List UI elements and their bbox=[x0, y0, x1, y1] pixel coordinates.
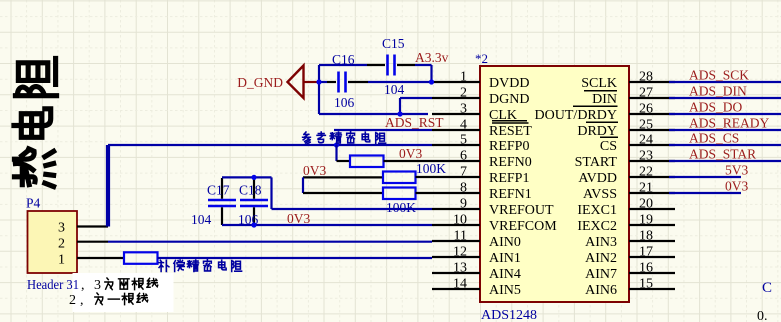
svg-text:0.: 0. bbox=[757, 309, 768, 322]
pin 6 stub wire bbox=[432, 160, 480, 162]
pin 3 stub wire bbox=[432, 113, 480, 115]
svg-text:C16: C16 bbox=[332, 52, 355, 67]
note background bbox=[73, 273, 174, 312]
capacitor C17 bbox=[208, 200, 236, 206]
svg-text:AIN2: AIN2 bbox=[585, 251, 617, 266]
svg-text:P4: P4 bbox=[26, 196, 41, 211]
svg-text:,: , bbox=[81, 278, 85, 293]
svg-text:AIN4: AIN4 bbox=[489, 267, 521, 282]
wire D_GND vertical bbox=[318, 65, 320, 114]
svg-text:DOUT/DRDY: DOUT/DRDY bbox=[535, 108, 617, 123]
wire 0V3 node vertical bbox=[302, 177, 304, 193]
title text 热电阻 (rotated) bbox=[14, 149, 53, 187]
P4 pin1 stub bbox=[77, 257, 124, 259]
junction A3.3v / pin1 bbox=[429, 79, 434, 84]
resistor 100K upper bbox=[383, 172, 416, 184]
svg-text:0V3: 0V3 bbox=[399, 146, 422, 161]
junction C18 top bbox=[251, 175, 256, 180]
label 补偿精密电阻 bbox=[159, 260, 169, 271]
svg-text:AVSS: AVSS bbox=[583, 187, 617, 202]
wire pin2 branch vertical bbox=[399, 98, 401, 114]
pin 7 stub wire bbox=[432, 176, 480, 178]
svg-text:0V3: 0V3 bbox=[287, 211, 310, 226]
resistor (compensation) bbox=[124, 252, 158, 263]
C15 left lead bbox=[367, 64, 385, 66]
wire junction to C16 bbox=[319, 81, 327, 83]
svg-text:AIN0: AIN0 bbox=[489, 235, 521, 250]
C16 left lead bbox=[327, 81, 336, 83]
resistor lead to REFN0 bbox=[384, 160, 433, 162]
svg-text:0V3: 0V3 bbox=[303, 163, 326, 178]
pin 11 stub wire bbox=[432, 240, 480, 242]
C18 top lead bbox=[253, 178, 255, 199]
pin 2 stub wire bbox=[432, 97, 480, 99]
pin 20 stub wire bbox=[629, 208, 675, 210]
resistor lead bbox=[337, 160, 351, 162]
svg-text:D_GND: D_GND bbox=[237, 75, 283, 90]
wire cap tops bbox=[222, 176, 272, 178]
pin 24 stub wire bbox=[629, 144, 675, 146]
svg-text:A3.3v: A3.3v bbox=[415, 50, 449, 65]
connector P4 body bbox=[28, 211, 78, 273]
C17 bottom lead bbox=[221, 207, 223, 225]
svg-text:RESET: RESET bbox=[489, 124, 532, 139]
capacitor C18 bbox=[240, 200, 268, 206]
svg-text:IEXC1: IEXC1 bbox=[577, 203, 617, 218]
wire net 5V3 bbox=[669, 176, 741, 178]
power port D_GND (triangle) bbox=[288, 66, 304, 99]
overline DRDY of DOUT/DRDY bbox=[573, 105, 618, 107]
wire down to VREFOUT bbox=[270, 177, 272, 209]
resistor (reference) bbox=[350, 156, 384, 168]
svg-text:C17: C17 bbox=[207, 183, 230, 198]
pin 10 stub wire bbox=[432, 224, 480, 226]
wire net ADS_SCK bbox=[669, 81, 781, 83]
C18 bottom lead bbox=[253, 207, 255, 225]
svg-text:,: , bbox=[80, 293, 84, 308]
svg-text:1: 1 bbox=[58, 253, 65, 268]
pin 9 stub wire bbox=[432, 208, 480, 210]
svg-text:Header 31: Header 31 bbox=[27, 277, 79, 292]
svg-text:C18: C18 bbox=[239, 183, 262, 198]
P4 pin3 stub bbox=[77, 225, 108, 227]
pin 5 stub wire bbox=[432, 144, 480, 146]
svg-text:REFP1: REFP1 bbox=[489, 171, 529, 186]
label 参考精密电阻 bbox=[303, 132, 311, 144]
pin 17 stub wire bbox=[629, 256, 675, 258]
svg-text:AVDD: AVDD bbox=[578, 171, 617, 186]
overline CS bbox=[600, 136, 618, 138]
svg-text:REFN1: REFN1 bbox=[489, 187, 532, 202]
svg-text:START: START bbox=[575, 155, 618, 170]
wire C16 to A3.3v junction bbox=[368, 81, 432, 83]
wire REFN1 left bbox=[303, 192, 383, 194]
svg-text:2: 2 bbox=[58, 237, 65, 252]
svg-text:SCLK: SCLK bbox=[581, 76, 617, 91]
pin 26 stub wire bbox=[629, 113, 675, 115]
wire D_GND to pin3 (CLK) bbox=[319, 113, 428, 115]
junction C18 bottom bbox=[251, 222, 256, 227]
pin 22 stub wire bbox=[629, 176, 675, 178]
svg-text:AIN7: AIN7 bbox=[585, 267, 617, 282]
P4 pin2 stub bbox=[77, 241, 108, 243]
svg-text:CS: CS bbox=[600, 139, 617, 154]
svg-text:ADS_RST: ADS_RST bbox=[385, 115, 444, 130]
pin 25 stub wire bbox=[629, 129, 675, 131]
svg-text:DIN: DIN bbox=[592, 92, 617, 107]
wire ADS_RST bbox=[334, 129, 432, 131]
junction D_GND bbox=[316, 79, 321, 84]
pin 19 stub wire bbox=[629, 224, 675, 226]
wire C15 to corner bbox=[415, 64, 432, 66]
wire REFP0 down to R bbox=[335, 145, 337, 161]
resistor lead bbox=[416, 192, 433, 194]
resistor lead bbox=[416, 176, 433, 178]
C15 right lead bbox=[397, 64, 415, 66]
svg-text:REFP0: REFP0 bbox=[489, 139, 529, 154]
svg-text:ADS_READY: ADS_READY bbox=[689, 116, 770, 131]
svg-text:100K: 100K bbox=[416, 161, 446, 176]
svg-text:VREFCOM: VREFCOM bbox=[489, 219, 557, 234]
wire D_GND to junction bbox=[304, 81, 320, 83]
pin 27 stub wire bbox=[629, 97, 675, 99]
overline RESET bbox=[492, 122, 529, 124]
wire pin2 branch bbox=[400, 97, 432, 99]
overline DIN bbox=[584, 90, 617, 92]
svg-text:104: 104 bbox=[384, 82, 405, 97]
pin 16 stub wire bbox=[629, 272, 675, 274]
wire P4 pin2 to AIN0 bbox=[108, 241, 432, 243]
pin 14 stub wire bbox=[432, 288, 480, 290]
junction pin2/pin3 net bbox=[397, 111, 402, 116]
underline CLK bbox=[492, 120, 527, 122]
pin 13 stub wire bbox=[432, 272, 480, 274]
svg-text:IEXC2: IEXC2 bbox=[577, 219, 617, 234]
wire corner down to pin1 bbox=[430, 65, 432, 82]
svg-text:0V3: 0V3 bbox=[725, 179, 748, 194]
wire net ADS_CS bbox=[669, 144, 781, 146]
wire P4 pin3 to REFP0 (thick) bbox=[106, 145, 110, 227]
overline DRDY bbox=[586, 121, 618, 123]
wire net ADS_STAR bbox=[669, 160, 781, 162]
capacitor C16 bbox=[339, 72, 346, 93]
pin 1 stub wire bbox=[432, 81, 480, 83]
pin 12 stub wire bbox=[432, 256, 480, 258]
svg-text:DGND: DGND bbox=[489, 92, 529, 107]
svg-text:VREFOUT: VREFOUT bbox=[489, 203, 554, 218]
wire net ADS_DO bbox=[669, 113, 781, 115]
svg-text:ADS1248: ADS1248 bbox=[481, 308, 537, 322]
svg-text:AIN5: AIN5 bbox=[489, 283, 521, 298]
junction REFP0 bbox=[334, 142, 339, 147]
svg-text:ADS_DO: ADS_DO bbox=[689, 100, 743, 115]
svg-text:106: 106 bbox=[334, 95, 355, 110]
svg-text:104: 104 bbox=[191, 212, 212, 227]
wire top to C15 bbox=[319, 64, 367, 66]
svg-text:ADS_CS: ADS_CS bbox=[689, 131, 739, 146]
wire VREFCOM 0V3 bbox=[222, 224, 432, 226]
pin 28 stub wire bbox=[629, 81, 675, 83]
capacitor C15 bbox=[388, 55, 395, 76]
wire net ADS_DIN bbox=[669, 97, 781, 99]
wire REFP1 left bbox=[303, 176, 383, 178]
svg-text:C: C bbox=[762, 280, 772, 296]
wire net ADS_READY bbox=[669, 129, 781, 131]
resistor 100K lower bbox=[383, 188, 416, 200]
C17 top lead bbox=[221, 178, 223, 199]
svg-text:3: 3 bbox=[58, 221, 65, 236]
pin 4 stub wire bbox=[432, 129, 480, 131]
wire net 0V3 bbox=[669, 192, 741, 194]
wire REFP0 net bbox=[108, 144, 432, 146]
pin 8 stub wire bbox=[432, 192, 480, 194]
svg-text:ADS_SCK: ADS_SCK bbox=[689, 68, 749, 83]
svg-text:REFN0: REFN0 bbox=[489, 155, 532, 170]
svg-text:ADS_DIN: ADS_DIN bbox=[689, 84, 747, 99]
svg-text:5V3: 5V3 bbox=[725, 163, 748, 178]
wire to AIN1 bbox=[158, 257, 433, 259]
pin 21 stub wire bbox=[629, 192, 675, 194]
svg-text:3: 3 bbox=[94, 278, 101, 293]
svg-text:ADS_STAR: ADS_STAR bbox=[689, 147, 756, 162]
pin 18 stub wire bbox=[629, 240, 675, 242]
svg-text:C15: C15 bbox=[382, 36, 405, 51]
pin 23 stub wire bbox=[629, 160, 675, 162]
svg-text:AIN3: AIN3 bbox=[585, 235, 617, 250]
C16 right lead bbox=[348, 81, 368, 83]
wire VREFOUT bbox=[272, 208, 433, 210]
op IC body ADS1248 (U*2) bbox=[480, 66, 629, 302]
pin 15 stub wire bbox=[629, 288, 675, 290]
svg-text:DVDD: DVDD bbox=[489, 76, 529, 91]
svg-text:*2: *2 bbox=[475, 51, 488, 66]
svg-text:AIN1: AIN1 bbox=[489, 251, 521, 266]
svg-text:AIN6: AIN6 bbox=[585, 283, 617, 298]
svg-text:100K: 100K bbox=[386, 200, 416, 215]
svg-text:2: 2 bbox=[69, 293, 76, 308]
